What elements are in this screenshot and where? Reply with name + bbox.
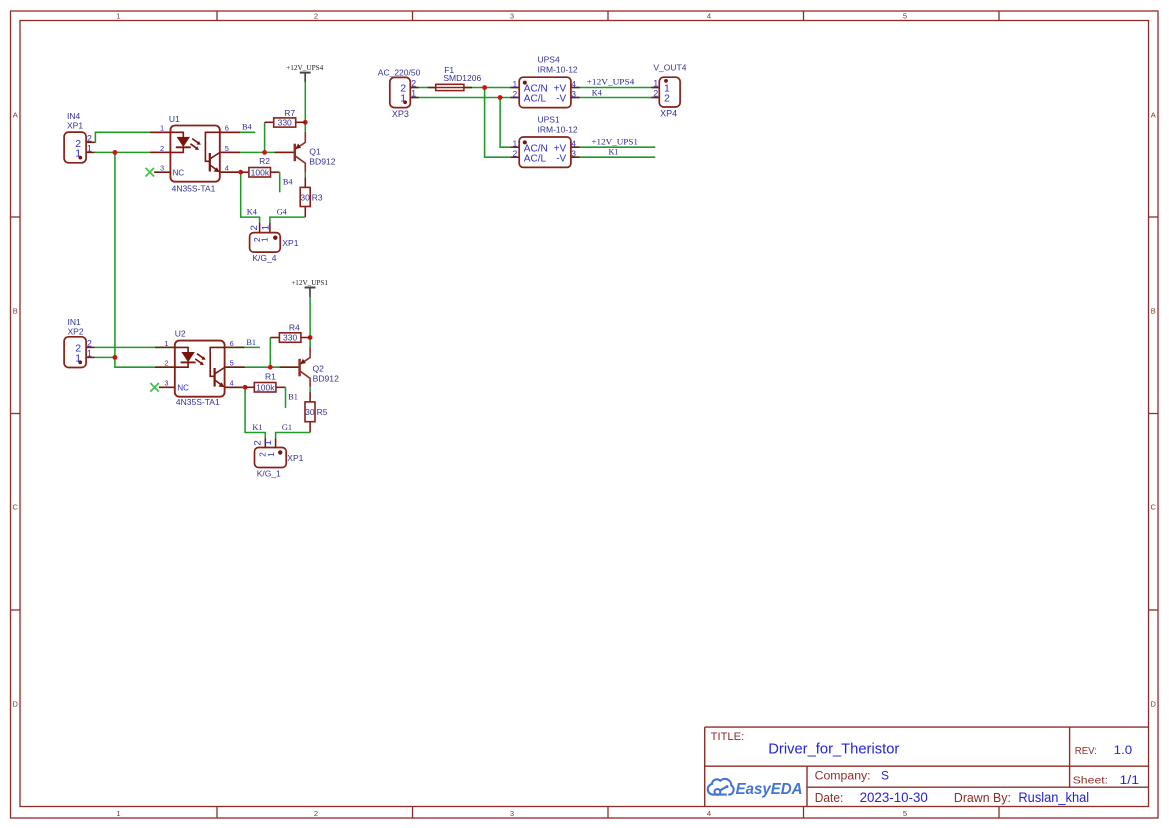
svg-text:Drawn By:: Drawn By:: [954, 791, 1011, 805]
power net +12V_UPS1 down to R4 junction: [309, 297, 311, 347]
svg-text:-V: -V: [556, 153, 566, 164]
svg-text:XP1: XP1: [287, 453, 303, 463]
svg-text:2: 2: [87, 133, 92, 143]
svg-text:EasyEDA: EasyEDA: [736, 781, 803, 798]
connector XP1 IN4: [64, 111, 94, 163]
svg-text:4: 4: [707, 12, 711, 21]
svg-text:R3: R3: [312, 193, 323, 203]
svg-text:U2: U2: [175, 329, 186, 339]
power flag +12V_UPS4: [286, 63, 323, 82]
wire UPS4 +V to XP4.1: [571, 87, 659, 89]
wire G1: R5 bottom to K/G_1 pin 1: [276, 433, 311, 439]
power net +12V_UPS4 down to R7 junction: [304, 82, 306, 132]
svg-text:6: 6: [230, 339, 234, 348]
wire U2.5 to Q2 base: [225, 366, 300, 368]
optocoupler U1 4N35S-TA1: [150, 114, 240, 194]
frame row letters: [12, 111, 1156, 709]
svg-text:1: 1: [512, 79, 517, 89]
svg-text:1: 1: [164, 339, 168, 348]
svg-text:2: 2: [160, 144, 164, 153]
svg-text:C: C: [12, 503, 18, 512]
svg-text:4: 4: [225, 164, 229, 173]
svg-text:2023-10-30: 2023-10-30: [860, 790, 928, 805]
svg-text:V_OUT4: V_OUT4: [653, 62, 686, 72]
svg-text:AC/L: AC/L: [524, 94, 547, 105]
wire G4: R3 bottom to K/G_4 pin 1: [270, 217, 305, 223]
svg-text:XP1: XP1: [282, 238, 298, 248]
resistor R4 330: [270, 322, 310, 342]
junction bottom AC line: [498, 95, 503, 100]
wire U2.4 to R1 junction: [225, 386, 246, 388]
svg-text:1/1: 1/1: [1120, 775, 1140, 787]
wire R7 left to pin5 line: [264, 122, 266, 152]
resistor R1 100k: [245, 372, 285, 393]
svg-text:R1: R1: [265, 372, 276, 382]
svg-text:1: 1: [116, 809, 120, 818]
svg-text:-V: -V: [556, 94, 566, 105]
svg-text:BD912: BD912: [309, 157, 335, 167]
svg-text:REV:: REV:: [1075, 745, 1097, 757]
svg-text:XP2: XP2: [68, 326, 84, 336]
svg-text:1.0: 1.0: [1114, 745, 1133, 757]
svg-text:C: C: [1150, 503, 1156, 512]
svg-text:D: D: [12, 700, 18, 709]
svg-text:IRM-10-12: IRM-10-12: [538, 65, 578, 75]
svg-text:2: 2: [164, 359, 168, 368]
svg-text:3: 3: [510, 809, 514, 818]
svg-text:D: D: [1150, 700, 1156, 709]
svg-text:1: 1: [653, 78, 658, 88]
svg-text:B1: B1: [288, 393, 298, 402]
frame column numbers: [116, 12, 907, 818]
junction R7/pin5: [262, 150, 267, 155]
junction U1.4/R2: [238, 170, 243, 175]
NC cross U1 pin 3: [146, 168, 155, 177]
svg-text:3: 3: [164, 379, 168, 388]
connector XP2 IN1: [64, 317, 94, 368]
power flag +12V_UPS1: [291, 278, 328, 297]
connector XP1 K/G_1: [253, 438, 304, 478]
svg-text:B: B: [13, 307, 18, 316]
svg-text:SMD1206: SMD1206: [443, 73, 481, 83]
svg-text:3: 3: [510, 12, 514, 21]
resistor R2 100k: [241, 156, 280, 177]
svg-text:G1: G1: [282, 423, 292, 432]
wire XP2.2 to U2.1: [95, 346, 175, 348]
fuse F1 SMD1206: [428, 65, 482, 91]
svg-text:K1: K1: [252, 423, 262, 432]
svg-text:+12V_UPS1: +12V_UPS1: [291, 278, 328, 287]
svg-text:2: 2: [653, 88, 658, 98]
connector XP4 V_OUT4: [651, 62, 686, 118]
wire Q1 collector to R3: [304, 173, 306, 178]
svg-text:K4: K4: [247, 207, 258, 216]
svg-text:30: 30: [300, 192, 310, 202]
svg-text:2: 2: [664, 92, 670, 104]
wire K1: R1 left to K/G_1 pin 2: [245, 387, 265, 438]
svg-text:1: 1: [411, 88, 416, 98]
svg-text:2: 2: [249, 225, 260, 230]
svg-text:4N35S-TA1: 4N35S-TA1: [176, 397, 220, 407]
svg-text:Ruslan_khal: Ruslan_khal: [1018, 790, 1089, 805]
svg-text:30: 30: [305, 407, 315, 417]
svg-text:BD912: BD912: [313, 373, 339, 383]
svg-text:2: 2: [411, 78, 416, 88]
svg-text:AC/L: AC/L: [524, 153, 547, 164]
svg-text:3: 3: [160, 164, 164, 173]
wire XP3.2 to F1 to UPS4 AC/N (top AC line): [410, 87, 519, 89]
junction R7 right: [303, 120, 308, 125]
connector XP3 AC_220/50: [378, 68, 421, 120]
svg-text:K4: K4: [592, 89, 602, 98]
wire U1.4 to R2 junction: [220, 171, 241, 173]
svg-text:1: 1: [87, 143, 92, 153]
svg-text:5: 5: [903, 809, 907, 818]
optocoupler U2 4N35S-TA1: [155, 329, 245, 408]
wire UPS1 -V (net K1): [571, 156, 655, 158]
NC cross U2 pin 3: [150, 383, 159, 392]
wire XP1.1 to U1.2: [95, 151, 171, 153]
power module UPS1 IRM-10-12: [510, 114, 579, 167]
svg-text:1: 1: [261, 225, 272, 230]
svg-text:A: A: [13, 111, 18, 120]
svg-text:1: 1: [266, 452, 276, 457]
junction R4 right: [308, 335, 313, 340]
svg-text:2: 2: [512, 149, 517, 159]
svg-text:S: S: [881, 769, 889, 783]
wire top line to UPS1 AC/L: [485, 88, 511, 158]
junction top AC line: [482, 85, 487, 90]
svg-text:2: 2: [512, 89, 517, 99]
svg-text:2: 2: [314, 12, 318, 21]
title block lines: [705, 727, 1149, 806]
svg-text:Q1: Q1: [309, 147, 321, 157]
svg-text:B: B: [1151, 307, 1156, 316]
svg-text:5: 5: [230, 359, 234, 368]
svg-text:3: 3: [571, 149, 576, 159]
connector XP1 K/G_4: [249, 223, 299, 263]
svg-text:1: 1: [512, 139, 517, 149]
junction at XP1.1: [113, 150, 118, 155]
svg-text:XP4: XP4: [660, 109, 677, 119]
svg-text:R2: R2: [259, 156, 270, 166]
svg-text:XP3: XP3: [392, 109, 409, 119]
svg-text:Company:: Company:: [815, 770, 871, 782]
svg-text:1: 1: [116, 12, 120, 21]
svg-text:K/G_4: K/G_4: [252, 253, 276, 263]
svg-text:2: 2: [253, 440, 264, 445]
svg-text:U1: U1: [169, 114, 180, 124]
svg-text:Q2: Q2: [313, 364, 325, 374]
wire R4 left to pin5 line: [269, 338, 271, 368]
svg-text:UPS1: UPS1: [538, 114, 560, 124]
wire XP2.1 to bus junction: [95, 356, 115, 358]
svg-text:IRM-10-12: IRM-10-12: [538, 124, 578, 134]
wire U1.5 to Q1 base: [220, 151, 295, 153]
svg-text:+12V_UPS4: +12V_UPS4: [587, 78, 635, 87]
wire U1.6 net B4: [220, 131, 255, 133]
wire net B4 at R2 right: [279, 172, 281, 192]
svg-text:UPS4: UPS4: [538, 55, 560, 65]
svg-text:100k: 100k: [256, 382, 275, 392]
wire UPS1 +V (net +12V_UPS1): [571, 146, 655, 148]
svg-text:6: 6: [225, 124, 229, 133]
junction U2.4/R1: [243, 385, 248, 390]
svg-text:4: 4: [230, 379, 234, 388]
wire bottom line to UPS1 AC/N: [500, 98, 510, 148]
svg-text:TITLE:: TITLE:: [711, 731, 745, 743]
svg-text:5: 5: [903, 12, 907, 21]
svg-text:K1: K1: [609, 147, 619, 156]
svg-text:100k: 100k: [251, 167, 270, 177]
EasyEDA logo: [708, 779, 803, 798]
svg-text:R5: R5: [317, 407, 328, 417]
wire vertical bus XP1.1/XP2.1 to U2.2: [115, 152, 175, 367]
svg-text:R4: R4: [289, 322, 300, 332]
title block texts: [711, 731, 1139, 805]
wire K4: R2 left to K/G_4 pin 2: [241, 172, 260, 223]
svg-text:+12V_UPS4: +12V_UPS4: [286, 63, 323, 72]
svg-text:330: 330: [283, 333, 297, 343]
svg-text:NC: NC: [173, 168, 185, 177]
wire XP1.2 to U1.1: [95, 132, 171, 142]
svg-text:AC_220/50: AC_220/50: [378, 68, 421, 78]
svg-text:B4: B4: [283, 178, 294, 187]
svg-text:XP1: XP1: [67, 121, 83, 131]
svg-text:4: 4: [571, 139, 576, 149]
svg-text:NC: NC: [177, 384, 189, 393]
svg-text:330: 330: [278, 117, 292, 127]
wire XP3.1 to UPS4 AC/L (bottom AC line): [410, 97, 519, 99]
svg-text:B4: B4: [242, 123, 253, 132]
svg-text:4: 4: [571, 79, 576, 89]
resistor R5 30: [305, 392, 328, 433]
wire net B1 at R1 right: [285, 387, 287, 408]
svg-text:B1: B1: [246, 338, 256, 347]
power module UPS4 IRM-10-12: [510, 55, 579, 108]
resistor R3 30: [300, 177, 323, 217]
wire U2.6 net B1: [225, 346, 260, 348]
svg-text:1: 1: [87, 348, 92, 358]
svg-text:1: 1: [160, 124, 164, 133]
wire UPS4 -V to XP4.2: [571, 97, 659, 99]
transistor Q1 BD912: [275, 132, 336, 173]
resistor R7 330: [265, 108, 306, 127]
transistor Q2 BD912: [280, 347, 339, 387]
svg-text:G4: G4: [277, 207, 288, 216]
wire Q2 collector to R5: [309, 387, 311, 392]
svg-text:Date:: Date:: [815, 791, 844, 805]
svg-text:K/G_1: K/G_1: [257, 468, 281, 478]
svg-text:IN4: IN4: [67, 111, 81, 121]
junction at XP2.1: [113, 355, 118, 360]
svg-text:4: 4: [707, 809, 711, 818]
junction R4/pin5: [268, 365, 273, 370]
svg-text:3: 3: [571, 89, 576, 99]
svg-text:1: 1: [259, 237, 269, 242]
svg-text:2: 2: [87, 339, 92, 349]
svg-text:Driver_for_Theristor: Driver_for_Theristor: [768, 741, 899, 757]
svg-text:Sheet:: Sheet:: [1073, 775, 1109, 787]
svg-text:+12V_UPS1: +12V_UPS1: [591, 137, 638, 146]
svg-text:4N35S-TA1: 4N35S-TA1: [172, 184, 216, 194]
svg-text:A: A: [1151, 111, 1156, 120]
svg-text:1: 1: [263, 440, 274, 445]
svg-text:2: 2: [314, 809, 318, 818]
svg-text:5: 5: [225, 144, 229, 153]
